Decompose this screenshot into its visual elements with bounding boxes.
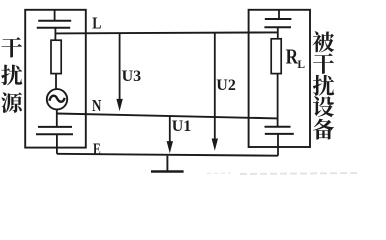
- label 扰 (of 被干扰设备): [313, 75, 334, 96]
- enclosure box: interference source (干扰源): [25, 10, 86, 148]
- svg-text:E: E: [93, 139, 101, 158]
- wire: RL bottom to node N and capacitor C4: [277, 74, 279, 127]
- wire: AC source bottom to node N and capacitor C2: [56, 110, 58, 127]
- capacitor C2 (neutral-to-chassis, bottom of interference source): [36, 127, 73, 134]
- label 源 (of 干扰源): [1, 92, 22, 113]
- label 干 (of 干扰源 interference source): [1, 37, 22, 57]
- wire: stub C2 through box bottom to earth line E: [56, 134, 58, 154]
- label 被 (of 被干扰设备 interfered equipment): [313, 31, 335, 52]
- label 设 (of 被干扰设备): [313, 96, 334, 117]
- voltage arrow U2 (L to E): [212, 33, 218, 151]
- wire: resistor bottom to AC source top: [55, 74, 57, 90]
- svg-text:U3: U3: [122, 68, 142, 85]
- wire: stub from box top to capacitor C3: [278, 10, 280, 19]
- enclosure box: interfered equipment (被干扰设备): [249, 10, 310, 147]
- svg-text:U1: U1: [172, 118, 192, 135]
- svg-text:N: N: [92, 96, 102, 115]
- resistor RL (load): [271, 39, 281, 74]
- wire N (neutral) from interference source to load: [57, 114, 278, 119]
- capacitor C3 (line-to-chassis, top of interfered equipment): [264, 19, 291, 27]
- capacitor C4 (neutral-to-chassis, bottom of interfered equipment): [265, 127, 294, 134]
- svg-text:L: L: [297, 59, 305, 71]
- wire: stub C3 to resistor RL top / node L: [277, 27, 279, 39]
- wire L (phase) from interference source to load: [55, 32, 277, 33]
- ground (earth) symbol below E line: [151, 156, 184, 172]
- label 干 (of 被干扰设备): [313, 53, 334, 74]
- scan artifact: faint smudge along bottom edge: [240, 173, 360, 174]
- voltage arrow U1 (N to E): [167, 116, 173, 153]
- AC source G1 (sine generator, 干扰源): [47, 89, 67, 109]
- resistor (source internal impedance): [51, 40, 61, 73]
- svg-text:L: L: [92, 14, 101, 33]
- capacitor C1 (line-to-chassis, top of interference source): [37, 21, 71, 28]
- voltage arrow U3 (L to N): [116, 33, 122, 111]
- wire: stub C4 through box bottom to earth line E: [277, 134, 279, 156]
- wire E (earth): [57, 154, 278, 156]
- wire: stub from box top to capacitor C1: [54, 10, 56, 21]
- label 扰 (of 干扰源): [1, 65, 22, 86]
- svg-text:U2: U2: [216, 77, 236, 94]
- wire: stub C1 to resistor top / node L: [54, 28, 56, 41]
- label 备 (of 被干扰设备): [313, 119, 334, 140]
